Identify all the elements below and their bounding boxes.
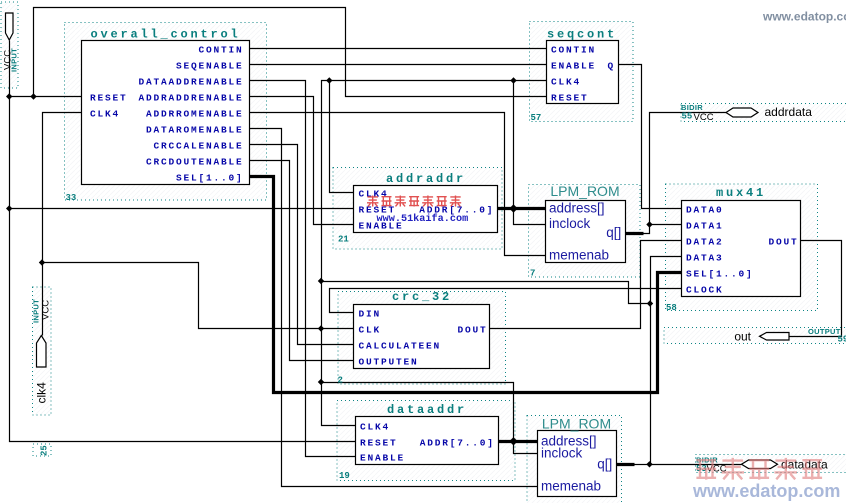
wire node link clk4 rail to datadata column (upper) bbox=[322, 282, 651, 304]
svg-text:LPM_ROM: LPM_ROM bbox=[542, 416, 611, 432]
wire net mux41 DOUT to output pin out bbox=[790, 241, 842, 337]
svg-text:19: 19 bbox=[339, 471, 350, 481]
wire clk4 branch to crc_32 CLK bbox=[43, 263, 354, 329]
symbol crc_32 body bbox=[354, 305, 490, 369]
svg-text:www.edatop.com: www.edatop.com bbox=[762, 10, 846, 24]
svg-text:RESET: RESET bbox=[90, 93, 128, 104]
symbol overall_control body bbox=[82, 41, 250, 185]
junction J13 datadata column bbox=[647, 300, 653, 306]
svg-text:memenab: memenab bbox=[541, 479, 601, 494]
svg-text:inclock: inclock bbox=[549, 216, 591, 231]
svg-text:DATA1: DATA1 bbox=[686, 221, 724, 232]
junction J6 clk4/inclock drop bbox=[510, 77, 516, 83]
junction J7 rail upper link bbox=[318, 278, 324, 284]
junction J14 datadata/q bbox=[646, 461, 652, 467]
svg-text:seqcont: seqcont bbox=[547, 28, 617, 42]
svg-text:ADDRADDRENABLE: ADDRADDRENABLE bbox=[138, 93, 243, 104]
svg-text:DATAROMENABLE: DATAROMENABLE bbox=[146, 125, 244, 136]
svg-text:2: 2 bbox=[338, 376, 343, 386]
selection box for input pin VCC (top-left) bbox=[1, 2, 18, 88]
selection box for symbol dataaddr bbox=[337, 401, 515, 481]
input pin clk4 symbol (left-middle) bbox=[37, 336, 47, 368]
svg-text:CLK: CLK bbox=[359, 325, 382, 336]
svg-text:OUTPUTEN: OUTPUTEN bbox=[359, 357, 419, 368]
selection box for pin number 25 of clk4 bbox=[33, 444, 51, 456]
wire net DATAADDRENABLE to dataaddr ENABLE bbox=[250, 81, 356, 457]
selection box for symbol LPM_ROM U-addr bbox=[529, 185, 641, 278]
svg-text:CRCDOUTENABLE: CRCDOUTENABLE bbox=[146, 157, 244, 168]
bus q[] stub LPM_ROM data rom (thick) bbox=[617, 463, 635, 466]
wire net crc DIN to mux41 CLOCK bbox=[330, 289, 682, 313]
junction J9 rail lower link bbox=[318, 379, 324, 385]
selection box for input pin clk4 bbox=[33, 287, 52, 415]
svg-text:addraddr: addraddr bbox=[386, 172, 466, 186]
svg-text:ENABLE: ENABLE bbox=[551, 61, 596, 72]
svg-text:SEQENABLE: SEQENABLE bbox=[176, 61, 244, 72]
svg-text:RESET: RESET bbox=[551, 93, 589, 104]
input pin VCC symbol (top-left) bbox=[6, 13, 14, 40]
wire VCC top loop to seqcont RESET bbox=[34, 8, 547, 97]
svg-text:addrdata: addrdata bbox=[765, 105, 813, 119]
svg-text:ENABLE: ENABLE bbox=[360, 452, 405, 463]
svg-text:ADDR[7..0]: ADDR[7..0] bbox=[420, 437, 495, 448]
wire node link clk4 rail to LPM_ROM inclock (data rom) bbox=[322, 383, 538, 454]
svg-text:DATAADDRENABLE: DATAADDRENABLE bbox=[138, 77, 243, 88]
wire net CRCCALENABLE to crc_32 CALCULATEEN bbox=[250, 145, 354, 345]
svg-text:INPUT: INPUT bbox=[10, 48, 19, 72]
selection box for symbol LPM_ROM U-data bbox=[527, 416, 622, 503]
svg-text:33: 33 bbox=[66, 193, 77, 203]
svg-text:CLK4: CLK4 bbox=[359, 189, 389, 200]
wire net SEQENABLE overall_control to seqcont ENABLE bbox=[250, 64, 547, 66]
wire net crc_32 DOUT to mux41 DATA2 bbox=[490, 241, 682, 329]
wire clk4 drop to addraddr CLK4 bbox=[330, 81, 354, 193]
bus q[] stub LPM_ROM addr rom (thick) bbox=[626, 232, 644, 235]
selection box for bidir pin datadata bbox=[696, 455, 846, 473]
wire net DATAROMENABLE to LPM_ROM memenab (data rom) bbox=[250, 129, 538, 487]
wire net datadata to bidir pin bbox=[650, 464, 742, 466]
svg-text:mux41: mux41 bbox=[716, 186, 766, 200]
svg-text:59: 59 bbox=[838, 335, 846, 345]
svg-text:58: 58 bbox=[666, 303, 677, 313]
svg-text:25: 25 bbox=[40, 445, 50, 456]
wire net addrdata to ROM q and mux41 DATA1 (column) bbox=[644, 113, 727, 234]
wire VCC branch to addraddr RESET bbox=[10, 208, 354, 210]
svg-text:VCC: VCC bbox=[694, 112, 714, 123]
svg-text:inclock: inclock bbox=[541, 446, 583, 461]
svg-text:SEL[1..0]: SEL[1..0] bbox=[176, 173, 244, 184]
svg-text:CONTIN: CONTIN bbox=[551, 45, 596, 56]
bus ADDR[7..0] addraddr to LPM_ROM address[] (thick) bbox=[498, 207, 546, 210]
wire clk4 drop to LPM_ROM inclock (addr rom) bbox=[514, 81, 546, 225]
svg-text:crc_32: crc_32 bbox=[392, 290, 452, 304]
junction J10 on ADDR bus bbox=[509, 204, 517, 212]
junction J3 VCC/addraddr RESET bbox=[6, 205, 12, 211]
selection box for symbol crc_32 bbox=[338, 292, 506, 385]
svg-text:DATA2: DATA2 bbox=[686, 237, 724, 248]
svg-text:55: 55 bbox=[682, 112, 693, 122]
output pin out symbol bbox=[760, 333, 790, 341]
bidir pin addrdata symbol bbox=[726, 108, 758, 117]
wire net seqcont Q to mux41 DATA0 bbox=[619, 65, 682, 209]
junction J2 VCC top loop bbox=[30, 93, 36, 99]
svg-text:Q: Q bbox=[607, 61, 615, 72]
selection box for symbol overall_control bbox=[65, 23, 267, 201]
selection box for bidir pin addrdata bbox=[681, 104, 846, 122]
selection box for symbol addraddr bbox=[333, 168, 502, 250]
svg-text:ADDRROMENABLE: ADDRROMENABLE bbox=[146, 109, 244, 120]
svg-text:CLOCK: CLOCK bbox=[686, 285, 724, 296]
svg-text:57: 57 bbox=[531, 113, 542, 123]
svg-text:www.edatop.com: www.edatop.com bbox=[692, 481, 840, 501]
wire net ADDRADDRENABLE to addraddr ENABLE bbox=[250, 97, 354, 225]
svg-text:SEL[1..0]: SEL[1..0] bbox=[686, 269, 754, 280]
junction J12 q/DATA1 bbox=[646, 221, 652, 227]
wire net CONTIN overall_control to seqcont bbox=[250, 48, 547, 50]
watermark red site name (pseudo CJK glyphs) bbox=[367, 196, 461, 207]
symbol dataaddr body bbox=[356, 417, 499, 465]
wire clk4 pin riser to overall_control CLK4 bbox=[43, 113, 82, 336]
svg-text:CLK4: CLK4 bbox=[551, 77, 581, 88]
svg-text:DATA0: DATA0 bbox=[686, 205, 724, 216]
svg-text:q[]: q[] bbox=[606, 225, 621, 240]
junction J11 on dataaddr bus bbox=[509, 437, 517, 445]
watermark big pink brand (pseudo CJK glyphs) bbox=[696, 458, 822, 480]
symbol seqcont body bbox=[547, 41, 619, 104]
bus SEL[1..0] overall_control to mux41 (thick) bbox=[250, 177, 682, 393]
symbol addraddr body bbox=[354, 186, 498, 233]
wire q[] link to datadata junction bbox=[635, 464, 650, 466]
bus ADDR[7..0] dataaddr to LPM_ROM address[] (thick) bbox=[499, 440, 538, 443]
wire net mux41 DATA3 to datadata column bbox=[651, 257, 682, 465]
svg-text:CONTIN: CONTIN bbox=[198, 45, 243, 56]
wire VCC to overall_control RESET bbox=[10, 96, 82, 98]
symbol LPM_ROM_addr body bbox=[546, 201, 626, 263]
svg-text:dataaddr: dataaddr bbox=[387, 403, 467, 417]
svg-text:clk4: clk4 bbox=[35, 382, 49, 404]
svg-text:out: out bbox=[734, 330, 751, 344]
svg-text:LPM_ROM: LPM_ROM bbox=[550, 183, 619, 199]
svg-text:DIN: DIN bbox=[359, 309, 382, 320]
svg-text:CRCCALENABLE: CRCCALENABLE bbox=[153, 141, 243, 152]
wire net ADDRROMENABLE to LPM_ROM memenab (addr rom) bbox=[250, 113, 546, 256]
svg-text:21: 21 bbox=[338, 235, 349, 245]
svg-text:address[]: address[] bbox=[549, 201, 605, 216]
symbol LPM_ROM_data body bbox=[538, 431, 617, 497]
svg-text:CALCULATEEN: CALCULATEEN bbox=[359, 341, 442, 352]
wire clk4 rail to seqcont CLK4 and dataaddr CLK4 bbox=[322, 81, 547, 426]
bidir pin datadata symbol bbox=[742, 460, 778, 469]
junction J4 clk4 branch bbox=[39, 259, 45, 265]
svg-text:INPUT: INPUT bbox=[32, 299, 41, 323]
wire branch to mux41 DATA1 bbox=[650, 224, 682, 226]
junction J1 VCC/RESET bbox=[6, 93, 12, 99]
svg-text:q[]: q[] bbox=[597, 457, 612, 472]
svg-text:RESET: RESET bbox=[360, 437, 398, 448]
svg-text:DOUT: DOUT bbox=[768, 237, 798, 248]
svg-text:memenab: memenab bbox=[549, 248, 609, 263]
wire VCC net: pin down to dataaddr RESET bbox=[10, 41, 356, 442]
svg-text:OUTPUT: OUTPUT bbox=[808, 327, 841, 336]
svg-text:7: 7 bbox=[530, 269, 535, 279]
selection box for symbol seqcont bbox=[530, 22, 634, 122]
svg-text:www.51kaifa.com: www.51kaifa.com bbox=[377, 213, 469, 225]
junction J8 rail/crc CLK bbox=[318, 325, 324, 331]
junction J5 clk4/addraddr drop bbox=[326, 77, 332, 83]
wire net CRCDOUTENABLE to crc_32 OUTPUTEN bbox=[250, 161, 354, 361]
selection box for symbol mux41 bbox=[666, 184, 818, 311]
svg-text:VCC: VCC bbox=[41, 300, 52, 320]
svg-text:CLK4: CLK4 bbox=[360, 422, 390, 433]
symbol mux41 body bbox=[682, 201, 801, 297]
svg-text:DATA3: DATA3 bbox=[686, 253, 724, 264]
svg-text:DOUT: DOUT bbox=[457, 325, 487, 336]
svg-text:CLK4: CLK4 bbox=[90, 109, 120, 120]
svg-text:overall_control: overall_control bbox=[90, 28, 240, 42]
selection box for output pin out bbox=[664, 328, 846, 344]
